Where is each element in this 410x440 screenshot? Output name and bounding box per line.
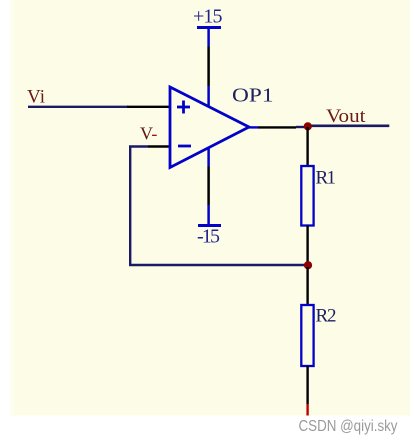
op-amp plus marking xyxy=(177,101,190,114)
pin: op-amp output stub (blue) xyxy=(248,126,258,128)
wire: +15 to op-amp (black) xyxy=(207,47,210,87)
svg-text:R1: R1 xyxy=(316,168,337,189)
wire: Vout (navy) xyxy=(306,125,389,128)
wire: output to junction (black) xyxy=(258,126,296,128)
wire: inverting input near pin (black) xyxy=(148,145,170,147)
wire: -15 stub (blue) xyxy=(207,205,210,225)
wire: Vi input (navy) xyxy=(28,106,128,108)
wire: red end segment xyxy=(306,404,308,416)
svg-text:V-: V- xyxy=(140,124,157,144)
op-amp OP1 triangle xyxy=(170,87,249,168)
wire: R2 to ground (black) xyxy=(306,366,308,404)
wire: op-amp to -15 (black) xyxy=(207,167,210,206)
wire: inverting input segment (navy) xyxy=(129,145,148,147)
junction: feedback node xyxy=(304,261,312,269)
op-amp minus marking xyxy=(178,145,191,148)
wire: junction 2 to R2 (black) xyxy=(306,267,308,305)
svg-text:R2: R2 xyxy=(316,306,337,327)
wire: feedback vertical (navy) xyxy=(129,146,131,266)
svg-text:Vi: Vi xyxy=(27,87,45,108)
resistor R2 xyxy=(301,305,313,366)
wire: R1 to junction 2 (black) xyxy=(306,226,308,264)
power bar symbol +15 xyxy=(197,26,221,29)
pin: op-amp V+ supply pin (blue) xyxy=(207,86,210,107)
wire: +15 stub (blue) xyxy=(207,28,210,47)
wire: junction to R1 (black) xyxy=(306,127,308,166)
svg-text:CSDN @qiyi.sky: CSDN @qiyi.sky xyxy=(299,418,398,435)
wire: Vi input near pin (black) xyxy=(127,106,170,108)
wire: feedback bottom horizontal (navy) xyxy=(129,264,308,266)
junction: output node xyxy=(304,122,312,130)
svg-text:Vout: Vout xyxy=(326,106,366,127)
power bar symbol -15 xyxy=(198,224,221,227)
pin: op-amp V- supply pin (blue) xyxy=(207,148,210,167)
wire: output to junction (navy) xyxy=(296,126,306,128)
resistor R1 xyxy=(301,166,313,226)
svg-text:+15: +15 xyxy=(193,6,223,28)
svg-text:-15: -15 xyxy=(197,226,220,248)
svg-text:OP1: OP1 xyxy=(232,85,274,107)
